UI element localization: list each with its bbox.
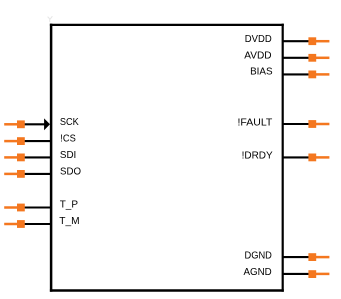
svg-text:SDO: SDO <box>60 167 81 178</box>
svg-text:SCK: SCK <box>60 117 79 128</box>
svg-text:!FAULT: !FAULT <box>238 118 273 129</box>
svg-text:BIAS: BIAS <box>250 67 273 78</box>
svg-text:!CS: !CS <box>60 134 76 145</box>
svg-text:AVDD: AVDD <box>244 50 271 61</box>
svg-text:AGND: AGND <box>244 267 272 278</box>
svg-text:DVDD: DVDD <box>245 34 272 45</box>
svg-text:DGND: DGND <box>245 251 272 262</box>
svg-text:!DRDY: !DRDY <box>242 151 273 162</box>
svg-text:SDI: SDI <box>60 150 76 161</box>
svg-text:T_P: T_P <box>60 199 79 210</box>
svg-text:T_M: T_M <box>59 216 79 227</box>
